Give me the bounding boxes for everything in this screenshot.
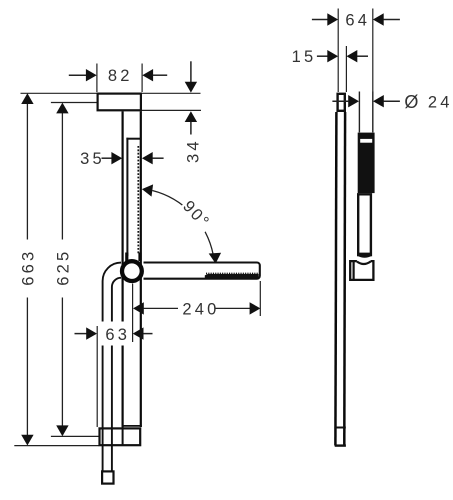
dimension 15: left arrow tail bbox=[317, 55, 328, 57]
dimension 240: line right segment bbox=[216, 307, 251, 309]
dimension 34: upper arrow tail bbox=[190, 61, 192, 82]
side wall bracket bbox=[338, 94, 345, 111]
svg-text:35: 35 bbox=[80, 150, 105, 168]
side rail left edge bbox=[335, 112, 336, 446]
arrowhead 240 right bbox=[250, 302, 261, 314]
arrowhead dia24 right bbox=[373, 95, 384, 107]
dimension 15: right arrow tail bbox=[357, 55, 368, 57]
hose outer curve bbox=[103, 263, 121, 471]
dimension 240: right extension line bbox=[259, 281, 261, 316]
extension line A (bracket left) bbox=[337, 9, 339, 93]
dimension 82: right extension line bbox=[141, 64, 143, 93]
dimension 34: top reference line bbox=[142, 92, 201, 94]
hand shower lower handle (side) bbox=[358, 194, 371, 255]
wire: 625 bottom reference line bbox=[51, 435, 99, 437]
hand shower head side: right edge bbox=[372, 92, 374, 133]
arrowhead 15 left bbox=[327, 50, 338, 62]
slider left edge bbox=[126, 138, 128, 256]
bottom wall bracket bbox=[100, 428, 141, 445]
dimension 663 vertical line upper segment bbox=[26, 96, 28, 240]
arrowhead 64 left bbox=[327, 13, 338, 25]
svg-text:82: 82 bbox=[108, 67, 133, 85]
slider neck right bbox=[138, 253, 141, 262]
slider neck left bbox=[125, 253, 128, 262]
svg-text:63: 63 bbox=[105, 326, 130, 344]
dimension dia24: right arrow tail bbox=[384, 100, 400, 102]
svg-text:15: 15 bbox=[292, 48, 317, 66]
dimension 625 vertical line lower segment bbox=[61, 298, 63, 434]
wire: 663 top reference line bbox=[21, 92, 97, 94]
rail bottom cap line bbox=[122, 425, 142, 427]
arrowhead 35 right bbox=[142, 152, 153, 164]
sleeve white notch bbox=[360, 139, 372, 143]
side rail right edge bbox=[343, 112, 346, 446]
dimension dia24: left arrow tail bbox=[332, 100, 349, 102]
arrowhead 625 bottom bbox=[56, 425, 68, 436]
dimension 64: left arrow tail bbox=[312, 19, 328, 21]
label 63 white backing bbox=[101, 322, 132, 346]
arrowhead 35 left bbox=[111, 152, 122, 164]
hand shower head side: left edge bbox=[358, 92, 360, 133]
wire: 663 bottom reference line bbox=[14, 445, 98, 447]
dimension 64: right arrow tail bbox=[383, 19, 400, 21]
side rail bottom cap bbox=[335, 444, 346, 446]
dimension 82: right arrow tail bbox=[153, 74, 168, 76]
arrowhead 15 right bbox=[347, 50, 358, 62]
arrowhead 82 left bbox=[86, 69, 97, 81]
label 90 degrees halo bbox=[180, 198, 214, 232]
svg-text:64: 64 bbox=[345, 11, 370, 29]
dimension 663 vertical line lower segment bbox=[26, 298, 28, 443]
extension line B (bracket right) bbox=[345, 46, 347, 92]
slider knurl dotted edge bbox=[137, 146, 139, 254]
pivot ring of shower holder bbox=[122, 261, 142, 281]
wand grip knurl serration bbox=[206, 272, 259, 274]
dimension 63: left extension line bbox=[96, 326, 98, 427]
svg-text:Ø: Ø bbox=[404, 92, 418, 112]
arrowhead 34 down bbox=[185, 82, 197, 93]
arrowhead 63 right bbox=[133, 327, 144, 339]
holder inner clamp line bbox=[353, 261, 355, 281]
dimension 63: right extension line (pivot centre) bbox=[132, 284, 134, 343]
slider top edge bbox=[126, 138, 140, 140]
arrowhead 625 top bbox=[56, 103, 68, 114]
svg-text:663: 663 bbox=[19, 249, 37, 286]
arrowhead 34 up bbox=[185, 111, 197, 122]
hand shower dark sleeve (side) bbox=[358, 133, 375, 194]
dimension 82: left arrow tail bbox=[69, 74, 87, 76]
top wall bracket bbox=[98, 94, 141, 111]
svg-text:24: 24 bbox=[428, 94, 453, 112]
svg-text:625: 625 bbox=[54, 249, 72, 286]
svg-text:34: 34 bbox=[185, 138, 203, 163]
dimension 35: right arrow tail bbox=[152, 157, 163, 159]
arrowhead dia24 left bbox=[348, 95, 359, 107]
dimension 82: left extension line bbox=[96, 64, 98, 93]
dimension 240: left arrowhead bbox=[133, 302, 144, 314]
dimension 240: line left segment bbox=[144, 307, 179, 309]
holder bracket (side) bbox=[350, 261, 373, 280]
extension line C (hand shower outer) bbox=[372, 9, 374, 92]
wall bar rail right edge bbox=[140, 111, 142, 427]
dimension 63: right arrow tail bbox=[143, 333, 152, 335]
wall bar rail left edge bbox=[121, 111, 123, 427]
side rail end joint line bbox=[335, 427, 346, 429]
arrowhead 663 bottom bbox=[21, 435, 33, 446]
svg-text:240: 240 bbox=[182, 300, 219, 318]
dimension 625 vertical line upper segment bbox=[61, 106, 63, 240]
arrowhead arc top (points at slider) bbox=[142, 184, 153, 196]
arrowhead 63 left bbox=[86, 327, 97, 339]
wand grip knurl band bbox=[205, 274, 259, 278]
arrowhead 82 right bbox=[142, 69, 153, 81]
hose inner curve bbox=[112, 278, 121, 471]
dimension 35: left arrow tail bbox=[102, 157, 113, 159]
dimension 34: lower arrow tail bbox=[190, 122, 192, 135]
arrowhead 64 right bbox=[373, 13, 384, 25]
holder cup arc bbox=[357, 262, 371, 265]
handle dark end tip bbox=[357, 253, 372, 258]
rail segment inside bottom bracket bbox=[122, 427, 124, 445]
angle arc 90 degrees bbox=[152, 191, 213, 255]
hand shower wand body bbox=[144, 263, 260, 279]
arrowhead arc bottom (points at hand shower) bbox=[209, 253, 221, 264]
arrowhead 663 top bbox=[21, 93, 33, 104]
dimension 63: left arrow tail bbox=[75, 333, 88, 335]
hose connector square bbox=[102, 471, 113, 483]
wire: 625 top reference line bbox=[51, 102, 97, 104]
dimension 34: bottom reference line bbox=[142, 109, 201, 111]
